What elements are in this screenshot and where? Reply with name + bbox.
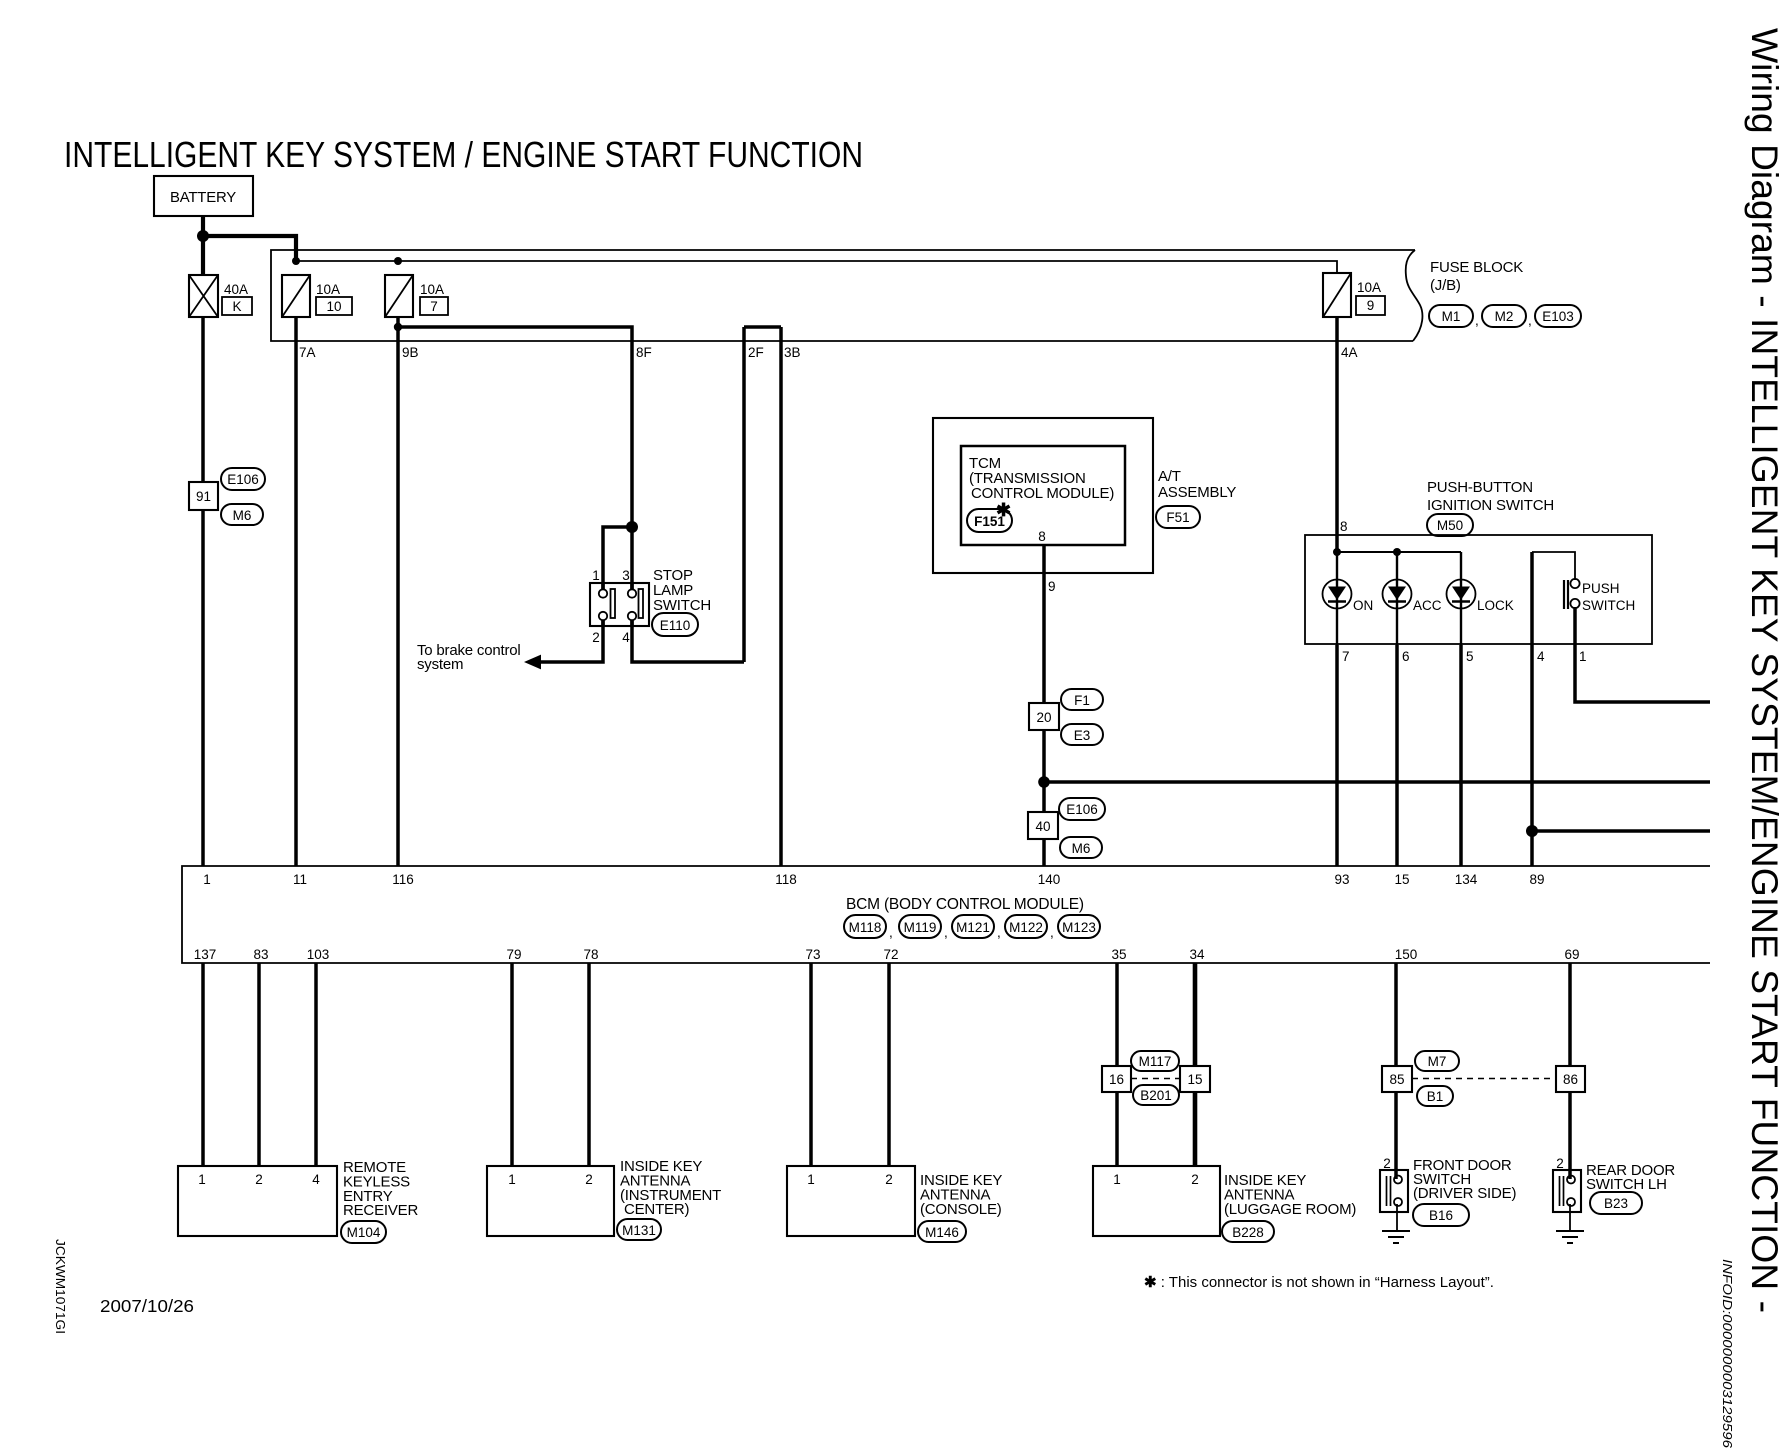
svg-text:Wiring Diagram - INTELLIGENT K: Wiring Diagram - INTELLIGENT KEY SYSTEM/… <box>1744 28 1785 1313</box>
svg-text:11: 11 <box>293 872 307 887</box>
svg-text:137: 137 <box>194 947 217 962</box>
svg-text:83: 83 <box>253 947 268 962</box>
svg-text:BCM (BODY CONTROL MODULE): BCM (BODY CONTROL MODULE) <box>846 896 1084 913</box>
svg-text:79: 79 <box>506 947 521 962</box>
svg-text:,: , <box>944 925 948 940</box>
svg-text:(DRIVER SIDE): (DRIVER SIDE) <box>1413 1185 1516 1202</box>
svg-text:116: 116 <box>392 872 414 887</box>
svg-text:15: 15 <box>1394 872 1409 887</box>
svg-text:PUSH: PUSH <box>1582 581 1620 596</box>
svg-text:SWITCH: SWITCH <box>1582 598 1635 613</box>
svg-text:E3: E3 <box>1074 728 1091 743</box>
svg-text:1: 1 <box>1579 649 1587 664</box>
svg-text:1: 1 <box>592 568 600 583</box>
svg-text:✱ : This connector is not show: ✱ : This connector is not shown in “Harn… <box>1144 1274 1494 1291</box>
svg-text:1: 1 <box>508 1172 516 1187</box>
svg-text:2: 2 <box>255 1172 263 1187</box>
svg-text:1: 1 <box>1113 1172 1121 1187</box>
svg-text:10: 10 <box>326 299 341 314</box>
svg-text:IGNITION SWITCH: IGNITION SWITCH <box>1427 497 1554 514</box>
svg-text:(J/B): (J/B) <box>1430 277 1461 294</box>
svg-text:91: 91 <box>196 489 211 504</box>
svg-text:CENTER): CENTER) <box>624 1201 689 1218</box>
svg-text:2007/10/26: 2007/10/26 <box>100 1296 194 1316</box>
svg-text:10A: 10A <box>316 282 340 297</box>
svg-text:7: 7 <box>430 299 438 314</box>
svg-text:M7: M7 <box>1428 1054 1447 1069</box>
svg-text:2: 2 <box>885 1172 893 1187</box>
svg-text:93: 93 <box>1334 872 1349 887</box>
svg-text:RECEIVER: RECEIVER <box>343 1202 418 1219</box>
svg-text:,: , <box>1050 925 1054 940</box>
svg-text:2: 2 <box>585 1172 593 1187</box>
svg-text:M50: M50 <box>1437 518 1463 533</box>
svg-text:85: 85 <box>1389 1072 1404 1087</box>
svg-text:34: 34 <box>1189 947 1205 962</box>
svg-text:E106: E106 <box>227 472 259 487</box>
svg-text:103: 103 <box>307 947 330 962</box>
svg-text:69: 69 <box>1564 947 1579 962</box>
svg-text:M118: M118 <box>849 920 882 935</box>
svg-text:4: 4 <box>1537 649 1545 664</box>
svg-text:B201: B201 <box>1140 1088 1172 1103</box>
svg-text:40: 40 <box>1035 819 1050 834</box>
svg-text:ON: ON <box>1353 598 1373 613</box>
svg-text:2: 2 <box>592 630 600 645</box>
svg-text:89: 89 <box>1529 872 1544 887</box>
svg-text:4A: 4A <box>1341 345 1358 360</box>
svg-text:8: 8 <box>1340 519 1348 534</box>
svg-text:7: 7 <box>1342 649 1350 664</box>
svg-text:,: , <box>997 925 1001 940</box>
svg-text:system: system <box>417 656 463 673</box>
svg-text:6: 6 <box>1402 649 1410 664</box>
svg-text:40A: 40A <box>224 282 248 297</box>
svg-text:2: 2 <box>1191 1172 1199 1187</box>
svg-text:1: 1 <box>807 1172 815 1187</box>
svg-text:E110: E110 <box>660 618 691 633</box>
svg-text:M122: M122 <box>1009 920 1043 935</box>
svg-text:9B: 9B <box>402 345 419 360</box>
svg-text:1: 1 <box>203 872 211 887</box>
svg-text:10A: 10A <box>1357 280 1381 295</box>
svg-text:INFOID:0000000003129596: INFOID:0000000003129596 <box>1720 1259 1735 1449</box>
svg-text:F1: F1 <box>1074 693 1090 708</box>
svg-text:SWITCH LH: SWITCH LH <box>1586 1176 1667 1193</box>
svg-text:B23: B23 <box>1604 1196 1628 1211</box>
svg-text:INTELLIGENT KEY SYSTEM / ENGIN: INTELLIGENT KEY SYSTEM / ENGINE START FU… <box>64 134 863 175</box>
svg-text:F151: F151 <box>974 514 1005 529</box>
svg-text:M104: M104 <box>347 1225 381 1240</box>
svg-text:73: 73 <box>805 947 820 962</box>
svg-text:K: K <box>232 299 241 314</box>
svg-text:M121: M121 <box>956 920 990 935</box>
svg-text:,: , <box>1528 313 1532 328</box>
svg-text:ACC: ACC <box>1413 598 1442 613</box>
svg-text:(CONSOLE): (CONSOLE) <box>920 1201 1002 1218</box>
svg-text:3B: 3B <box>784 345 801 360</box>
svg-text:15: 15 <box>1187 1072 1202 1087</box>
svg-text:M119: M119 <box>904 920 937 935</box>
svg-text:10A: 10A <box>420 282 444 297</box>
svg-text:5: 5 <box>1466 649 1474 664</box>
svg-text:2: 2 <box>1383 1156 1391 1171</box>
svg-text:78: 78 <box>583 947 598 962</box>
svg-text:M123: M123 <box>1062 920 1096 935</box>
svg-text:ASSEMBLY: ASSEMBLY <box>1158 484 1236 501</box>
svg-text:(LUGGAGE ROOM): (LUGGAGE ROOM) <box>1224 1201 1356 1218</box>
svg-text:72: 72 <box>883 947 898 962</box>
svg-text:35: 35 <box>1111 947 1126 962</box>
svg-text:4: 4 <box>622 630 630 645</box>
svg-text:86: 86 <box>1563 1072 1578 1087</box>
svg-text:1: 1 <box>198 1172 206 1187</box>
svg-text:M6: M6 <box>233 508 252 523</box>
svg-text:B228: B228 <box>1232 1225 1264 1240</box>
svg-text:B1: B1 <box>1427 1089 1444 1104</box>
svg-text:8F: 8F <box>636 345 652 360</box>
svg-text:9: 9 <box>1367 298 1375 313</box>
svg-text:BATTERY: BATTERY <box>170 189 236 206</box>
svg-text:118: 118 <box>775 872 797 887</box>
svg-text:134: 134 <box>1455 872 1478 887</box>
svg-text:16: 16 <box>1109 1072 1124 1087</box>
svg-text:7A: 7A <box>299 345 316 360</box>
svg-text:CONTROL MODULE): CONTROL MODULE) <box>971 485 1114 502</box>
svg-text:2: 2 <box>1556 1156 1564 1171</box>
svg-text:LOCK: LOCK <box>1477 598 1514 613</box>
svg-text:4: 4 <box>312 1172 320 1187</box>
svg-text:,: , <box>1475 313 1479 328</box>
svg-text:E103: E103 <box>1542 309 1574 324</box>
svg-text:M2: M2 <box>1495 309 1514 324</box>
svg-text:2F: 2F <box>748 345 764 360</box>
svg-text:B16: B16 <box>1429 1208 1453 1223</box>
svg-text:8: 8 <box>1038 529 1046 544</box>
svg-text:9: 9 <box>1048 579 1056 594</box>
svg-text:M131: M131 <box>622 1223 656 1238</box>
svg-text:F51: F51 <box>1166 510 1189 525</box>
svg-text:150: 150 <box>1395 947 1418 962</box>
svg-text:140: 140 <box>1038 872 1061 887</box>
svg-text:A/T: A/T <box>1158 468 1181 485</box>
svg-text:3: 3 <box>622 568 630 583</box>
svg-text:M1: M1 <box>1442 309 1461 324</box>
svg-text:M117: M117 <box>1139 1054 1172 1069</box>
svg-text:M146: M146 <box>925 1225 959 1240</box>
svg-text:20: 20 <box>1036 710 1051 725</box>
svg-text:M6: M6 <box>1072 841 1091 856</box>
svg-text:JCKWM1071GI: JCKWM1071GI <box>53 1239 68 1334</box>
svg-text:SWITCH: SWITCH <box>653 597 711 614</box>
svg-text:FUSE BLOCK: FUSE BLOCK <box>1430 259 1523 276</box>
svg-text:,: , <box>889 925 893 940</box>
svg-text:E106: E106 <box>1066 802 1098 817</box>
svg-text:PUSH-BUTTON: PUSH-BUTTON <box>1427 479 1533 496</box>
